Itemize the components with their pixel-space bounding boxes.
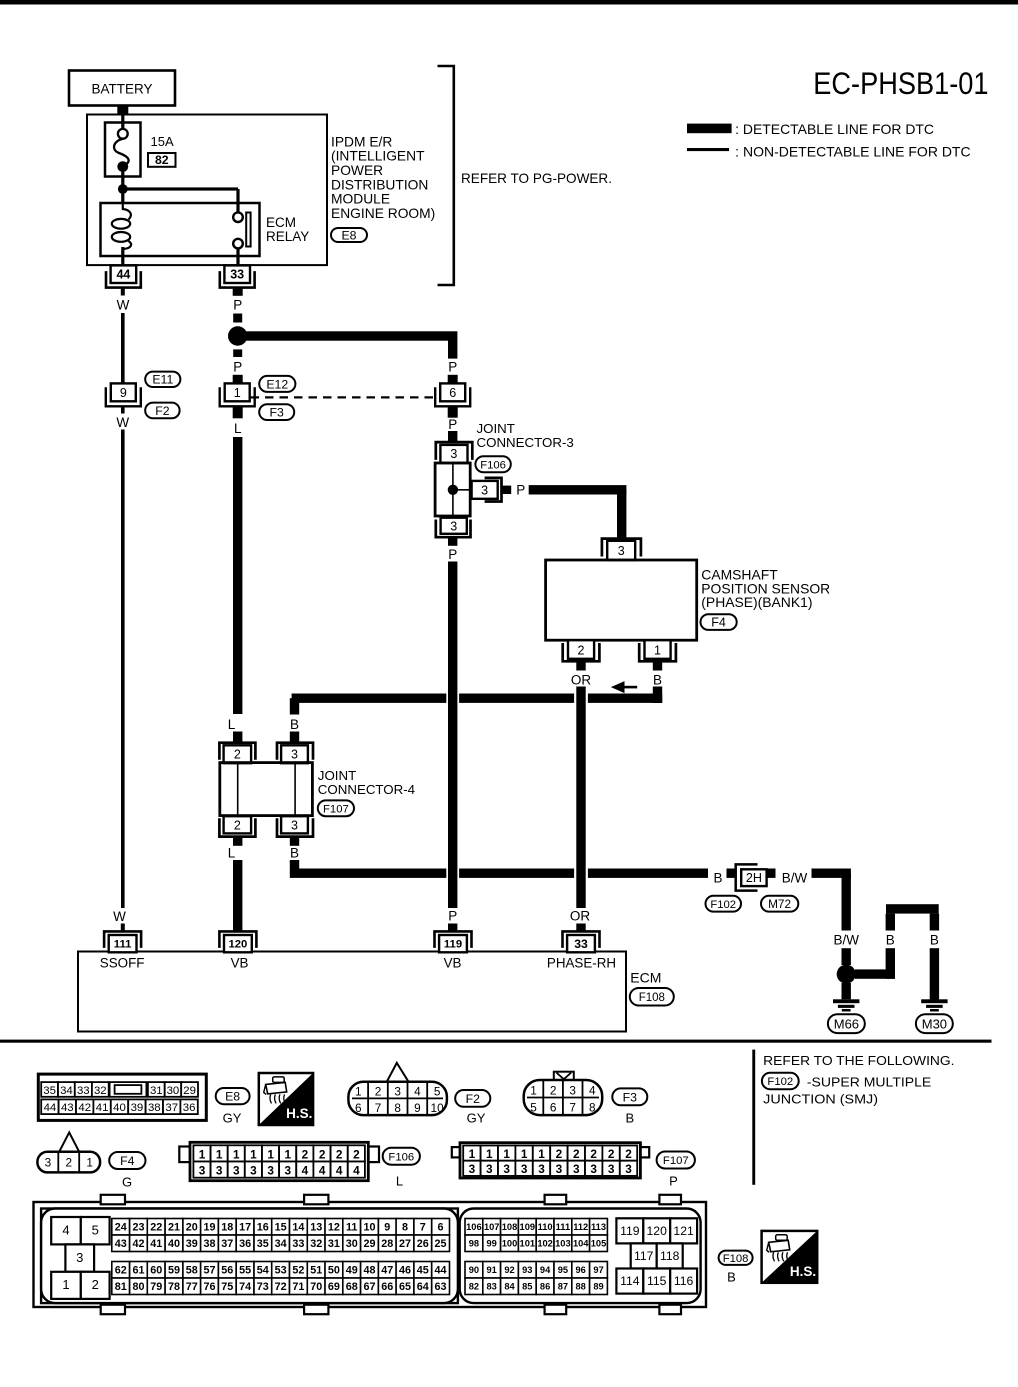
svg-text:19: 19 xyxy=(203,1222,215,1234)
svg-text:1: 1 xyxy=(62,1277,69,1292)
svg-text:F107: F107 xyxy=(663,1155,689,1167)
svg-text:2: 2 xyxy=(319,1147,326,1161)
svg-text:97: 97 xyxy=(593,1265,603,1275)
svg-text:59: 59 xyxy=(168,1265,180,1277)
svg-text:3: 3 xyxy=(608,1162,615,1176)
svg-text:111: 111 xyxy=(556,1222,571,1232)
svg-text:L: L xyxy=(228,846,236,861)
svg-text:F106: F106 xyxy=(388,1151,414,1163)
svg-text:6: 6 xyxy=(355,1101,362,1115)
svg-text:4: 4 xyxy=(353,1164,360,1178)
svg-text:BATTERY: BATTERY xyxy=(91,82,152,97)
svg-text:116: 116 xyxy=(674,1274,694,1288)
svg-text:12: 12 xyxy=(328,1222,340,1234)
svg-text:3: 3 xyxy=(521,1162,528,1176)
svg-text:58: 58 xyxy=(186,1265,198,1277)
svg-text:46: 46 xyxy=(399,1265,411,1277)
svg-text:H.S.: H.S. xyxy=(286,1106,312,1121)
svg-text:P: P xyxy=(448,417,457,432)
svg-text:44: 44 xyxy=(434,1265,446,1277)
svg-text:21: 21 xyxy=(168,1222,180,1234)
svg-text:DISTRIBUTION: DISTRIBUTION xyxy=(331,177,428,192)
svg-text:JUNCTION (SMJ): JUNCTION (SMJ) xyxy=(763,1092,878,1107)
svg-text:73: 73 xyxy=(257,1281,269,1293)
svg-text:38: 38 xyxy=(148,1102,161,1114)
svg-text:37: 37 xyxy=(165,1102,178,1114)
svg-text:54: 54 xyxy=(257,1265,269,1277)
svg-text:2: 2 xyxy=(234,748,241,762)
svg-text:3: 3 xyxy=(625,1162,632,1176)
svg-text:35: 35 xyxy=(257,1238,269,1250)
svg-text:91: 91 xyxy=(487,1265,497,1275)
svg-text:B/W: B/W xyxy=(782,870,808,885)
svg-text:42: 42 xyxy=(132,1238,144,1250)
svg-text:E8: E8 xyxy=(341,228,356,242)
svg-text:105: 105 xyxy=(591,1239,607,1249)
svg-text:53: 53 xyxy=(275,1265,287,1277)
svg-text:E12: E12 xyxy=(266,377,288,391)
svg-text:2: 2 xyxy=(92,1277,99,1292)
svg-text:14: 14 xyxy=(292,1222,304,1234)
svg-text:L: L xyxy=(234,421,242,436)
svg-text:B: B xyxy=(290,846,299,861)
svg-text:34: 34 xyxy=(275,1238,287,1250)
svg-text:M66: M66 xyxy=(834,1016,859,1031)
svg-text:3: 3 xyxy=(45,1155,52,1169)
svg-text:26: 26 xyxy=(417,1238,429,1250)
svg-text:72: 72 xyxy=(275,1281,287,1293)
svg-text:3: 3 xyxy=(486,1162,493,1176)
svg-text:51: 51 xyxy=(310,1265,322,1277)
svg-text:76: 76 xyxy=(203,1281,215,1293)
svg-text:F2: F2 xyxy=(466,1092,481,1106)
svg-text:81: 81 xyxy=(115,1281,127,1293)
svg-text:: DETECTABLE LINE FOR DTC: : DETECTABLE LINE FOR DTC xyxy=(735,121,934,137)
svg-text:1: 1 xyxy=(199,1147,206,1161)
svg-text:L: L xyxy=(396,1174,403,1189)
svg-text:CONNECTOR-4: CONNECTOR-4 xyxy=(318,782,415,797)
svg-text:63: 63 xyxy=(434,1281,446,1293)
svg-text:41: 41 xyxy=(150,1238,162,1250)
svg-text:100: 100 xyxy=(502,1239,518,1249)
svg-text:B: B xyxy=(653,673,662,688)
svg-text:3: 3 xyxy=(450,520,457,534)
svg-text:42: 42 xyxy=(78,1102,91,1114)
svg-text:1: 1 xyxy=(530,1083,537,1097)
svg-text:33: 33 xyxy=(77,1085,90,1097)
svg-text:3: 3 xyxy=(469,1162,476,1176)
svg-text:REFER TO THE FOLLOWING.: REFER TO THE FOLLOWING. xyxy=(763,1053,954,1068)
svg-text:1: 1 xyxy=(654,643,661,657)
svg-text:4: 4 xyxy=(62,1223,69,1238)
svg-text:-SUPER MULTIPLE: -SUPER MULTIPLE xyxy=(807,1075,932,1090)
svg-text:30: 30 xyxy=(167,1085,180,1097)
svg-text:10: 10 xyxy=(363,1222,375,1234)
svg-text:67: 67 xyxy=(363,1281,375,1293)
svg-text:2: 2 xyxy=(375,1084,382,1098)
svg-text:W: W xyxy=(113,909,126,924)
svg-text:39: 39 xyxy=(186,1238,198,1250)
svg-text:F3: F3 xyxy=(623,1090,638,1104)
svg-text:61: 61 xyxy=(132,1265,144,1277)
svg-text:25: 25 xyxy=(434,1238,446,1250)
svg-text:52: 52 xyxy=(292,1265,304,1277)
svg-text:2: 2 xyxy=(550,1083,557,1097)
svg-text:39: 39 xyxy=(131,1102,144,1114)
svg-text:4: 4 xyxy=(319,1164,326,1178)
svg-text:94: 94 xyxy=(540,1265,551,1275)
svg-text:F106: F106 xyxy=(480,459,506,471)
svg-text:M30: M30 xyxy=(922,1016,947,1031)
svg-text:71: 71 xyxy=(292,1281,304,1293)
svg-text:EC-PHSB1-01: EC-PHSB1-01 xyxy=(813,66,988,101)
svg-text:3: 3 xyxy=(76,1250,83,1265)
svg-text:82: 82 xyxy=(155,153,169,167)
svg-text:2: 2 xyxy=(625,1147,632,1161)
svg-text:H.S.: H.S. xyxy=(790,1264,816,1279)
svg-text:1: 1 xyxy=(216,1147,223,1161)
svg-text:F4: F4 xyxy=(711,616,726,630)
svg-text:F2: F2 xyxy=(155,404,170,418)
svg-text:98: 98 xyxy=(469,1239,479,1249)
svg-text:10: 10 xyxy=(431,1101,445,1115)
svg-text:119: 119 xyxy=(620,1224,640,1238)
svg-text:114: 114 xyxy=(620,1274,640,1288)
svg-text:5: 5 xyxy=(530,1100,537,1114)
svg-text:7: 7 xyxy=(375,1101,382,1115)
svg-text:F102: F102 xyxy=(767,1076,793,1088)
svg-text:32: 32 xyxy=(310,1238,322,1250)
svg-text:44: 44 xyxy=(44,1102,57,1114)
svg-text:50: 50 xyxy=(328,1265,340,1277)
svg-text:68: 68 xyxy=(346,1281,358,1293)
svg-text:F108: F108 xyxy=(723,1253,749,1265)
svg-text:117: 117 xyxy=(634,1249,654,1263)
svg-text:120: 120 xyxy=(647,1224,668,1238)
svg-text:P: P xyxy=(448,547,457,562)
svg-text:27: 27 xyxy=(399,1238,411,1250)
svg-text:96: 96 xyxy=(576,1265,586,1275)
svg-text:102: 102 xyxy=(537,1239,553,1249)
svg-text:3: 3 xyxy=(618,544,625,558)
svg-text:31: 31 xyxy=(328,1238,340,1250)
svg-text:7: 7 xyxy=(569,1100,576,1114)
svg-text:17: 17 xyxy=(239,1222,251,1234)
svg-text:77: 77 xyxy=(186,1281,198,1293)
svg-text:F108: F108 xyxy=(639,992,665,1004)
svg-text:P: P xyxy=(233,360,242,375)
svg-text:29: 29 xyxy=(183,1085,196,1097)
svg-text:93: 93 xyxy=(522,1265,532,1275)
svg-text:E8: E8 xyxy=(225,1090,240,1104)
svg-text:24: 24 xyxy=(115,1222,127,1234)
svg-text:88: 88 xyxy=(576,1282,586,1292)
svg-text:3: 3 xyxy=(590,1162,597,1176)
svg-text:5: 5 xyxy=(92,1223,99,1238)
svg-text:16: 16 xyxy=(257,1222,269,1234)
svg-text:40: 40 xyxy=(168,1238,180,1250)
svg-text:104: 104 xyxy=(573,1239,589,1249)
svg-text:JOINT: JOINT xyxy=(318,768,356,783)
svg-text:8: 8 xyxy=(589,1100,596,1114)
svg-text:F3: F3 xyxy=(270,406,285,420)
svg-text:2: 2 xyxy=(608,1147,615,1161)
svg-text:3: 3 xyxy=(538,1162,545,1176)
svg-text:8: 8 xyxy=(402,1222,408,1234)
svg-text:22: 22 xyxy=(150,1222,162,1234)
svg-text:92: 92 xyxy=(504,1265,514,1275)
svg-text:111: 111 xyxy=(114,939,132,951)
svg-text:1: 1 xyxy=(521,1147,528,1161)
svg-text:11: 11 xyxy=(346,1222,357,1234)
svg-text:5: 5 xyxy=(434,1084,441,1098)
svg-text:121: 121 xyxy=(673,1224,694,1238)
svg-text:13: 13 xyxy=(310,1222,322,1234)
svg-text:87: 87 xyxy=(558,1282,568,1292)
svg-text:33: 33 xyxy=(230,268,244,282)
svg-text:41: 41 xyxy=(96,1102,109,1114)
svg-text:3: 3 xyxy=(503,1162,510,1176)
svg-text:1: 1 xyxy=(285,1147,292,1161)
svg-text:56: 56 xyxy=(221,1265,233,1277)
svg-text:2: 2 xyxy=(234,818,241,832)
svg-text:109: 109 xyxy=(520,1222,536,1232)
svg-text:3: 3 xyxy=(216,1164,223,1178)
svg-text:101: 101 xyxy=(520,1239,536,1249)
svg-text:33: 33 xyxy=(574,937,588,951)
svg-text:29: 29 xyxy=(363,1238,375,1250)
svg-text:118: 118 xyxy=(660,1249,680,1263)
svg-text:23: 23 xyxy=(132,1222,144,1234)
svg-text:95: 95 xyxy=(558,1265,568,1275)
svg-text:1: 1 xyxy=(486,1147,493,1161)
svg-text:VB: VB xyxy=(444,955,462,970)
svg-text:49: 49 xyxy=(346,1265,358,1277)
svg-text:1: 1 xyxy=(355,1084,362,1098)
svg-text:SSOFF: SSOFF xyxy=(100,955,145,970)
svg-text:45: 45 xyxy=(417,1265,429,1277)
svg-text:84: 84 xyxy=(504,1282,515,1292)
svg-text:M72: M72 xyxy=(768,897,791,911)
svg-text:B: B xyxy=(930,933,939,948)
svg-text:55: 55 xyxy=(239,1265,251,1277)
svg-text:47: 47 xyxy=(381,1265,393,1277)
svg-text:2: 2 xyxy=(573,1147,580,1161)
svg-text:2: 2 xyxy=(578,643,585,657)
svg-text:3: 3 xyxy=(394,1084,401,1098)
svg-text:75: 75 xyxy=(221,1281,233,1293)
svg-text:3: 3 xyxy=(199,1164,206,1178)
svg-text:38: 38 xyxy=(203,1238,215,1250)
svg-text:P: P xyxy=(233,298,242,313)
svg-text:36: 36 xyxy=(239,1238,251,1250)
svg-text:F4: F4 xyxy=(120,1154,135,1168)
svg-text:1: 1 xyxy=(469,1147,476,1161)
svg-text:74: 74 xyxy=(239,1281,251,1293)
svg-text:18: 18 xyxy=(221,1222,233,1234)
svg-text:28: 28 xyxy=(381,1238,393,1250)
svg-text:1: 1 xyxy=(234,386,241,400)
svg-text:33: 33 xyxy=(292,1238,304,1250)
svg-text:MODULE: MODULE xyxy=(331,192,390,207)
svg-text:44: 44 xyxy=(116,268,130,282)
svg-text:9: 9 xyxy=(120,386,127,400)
svg-text:1: 1 xyxy=(233,1147,240,1161)
svg-text:3: 3 xyxy=(233,1164,240,1178)
svg-text:POWER: POWER xyxy=(331,163,383,178)
svg-text:6: 6 xyxy=(437,1222,443,1234)
svg-text:F102: F102 xyxy=(710,899,736,911)
svg-text:L: L xyxy=(228,717,236,732)
svg-text:GY: GY xyxy=(467,1111,486,1126)
svg-text:B: B xyxy=(713,870,722,885)
svg-text:IPDM E/R: IPDM E/R xyxy=(331,134,392,149)
svg-text:B/W: B/W xyxy=(833,933,859,948)
svg-text:JOINT: JOINT xyxy=(477,421,515,436)
svg-text:86: 86 xyxy=(540,1282,550,1292)
svg-text:9: 9 xyxy=(414,1101,421,1115)
svg-text:REFER TO PG-POWER.: REFER TO PG-POWER. xyxy=(461,171,612,186)
svg-text:40: 40 xyxy=(113,1102,126,1114)
svg-text:85: 85 xyxy=(522,1282,532,1292)
svg-text:64: 64 xyxy=(417,1281,429,1293)
svg-text:P: P xyxy=(669,1174,678,1189)
svg-text:1: 1 xyxy=(503,1147,510,1161)
svg-text:110: 110 xyxy=(538,1222,553,1232)
svg-text:43: 43 xyxy=(115,1238,127,1250)
svg-text:90: 90 xyxy=(469,1265,479,1275)
svg-text:B: B xyxy=(625,1111,634,1126)
svg-text:31: 31 xyxy=(150,1085,163,1097)
svg-text:2: 2 xyxy=(66,1155,73,1169)
svg-text:115: 115 xyxy=(647,1274,667,1288)
svg-text:F107: F107 xyxy=(323,803,349,815)
svg-text:G: G xyxy=(122,1175,132,1190)
svg-text:1: 1 xyxy=(267,1147,274,1161)
svg-text:B: B xyxy=(886,933,895,948)
svg-text:(INTELLIGENT: (INTELLIGENT xyxy=(331,149,425,164)
svg-text:70: 70 xyxy=(310,1281,322,1293)
svg-text:GY: GY xyxy=(223,1111,242,1126)
svg-text:3: 3 xyxy=(291,748,298,762)
svg-text:4: 4 xyxy=(336,1164,343,1178)
svg-text:P: P xyxy=(448,909,457,924)
svg-text:82: 82 xyxy=(469,1282,479,1292)
svg-text:2: 2 xyxy=(336,1147,343,1161)
svg-text:(PHASE)(BANK1): (PHASE)(BANK1) xyxy=(701,594,812,610)
svg-text:57: 57 xyxy=(203,1265,215,1277)
svg-text:99: 99 xyxy=(487,1239,497,1249)
svg-text:ECM: ECM xyxy=(630,969,661,985)
svg-text:32: 32 xyxy=(94,1085,107,1097)
svg-text:3: 3 xyxy=(450,447,457,461)
svg-text:30: 30 xyxy=(346,1238,358,1250)
svg-text:2: 2 xyxy=(302,1147,309,1161)
svg-text:20: 20 xyxy=(186,1222,198,1234)
svg-text:4: 4 xyxy=(302,1164,309,1178)
svg-text:66: 66 xyxy=(381,1281,393,1293)
svg-text:OR: OR xyxy=(570,909,591,924)
svg-text:6: 6 xyxy=(449,386,456,400)
svg-text:108: 108 xyxy=(502,1222,518,1232)
svg-text:79: 79 xyxy=(150,1281,162,1293)
svg-text:B: B xyxy=(290,717,299,732)
svg-text:113: 113 xyxy=(591,1222,606,1232)
svg-text:CONNECTOR-3: CONNECTOR-3 xyxy=(477,435,574,450)
svg-text:15A: 15A xyxy=(151,134,174,149)
svg-text:6: 6 xyxy=(550,1100,557,1114)
svg-text:2: 2 xyxy=(590,1147,597,1161)
svg-text:B: B xyxy=(727,1269,736,1284)
svg-text:106: 106 xyxy=(466,1222,482,1232)
svg-text:119: 119 xyxy=(444,939,462,951)
svg-text:3: 3 xyxy=(573,1162,580,1176)
svg-text:1: 1 xyxy=(86,1155,93,1169)
svg-text:103: 103 xyxy=(555,1239,571,1249)
svg-text:RELAY: RELAY xyxy=(266,229,309,244)
svg-text:9: 9 xyxy=(384,1222,390,1234)
svg-text:107: 107 xyxy=(484,1222,500,1232)
svg-text:VB: VB xyxy=(231,955,249,970)
svg-text:3: 3 xyxy=(481,483,488,497)
svg-text:3: 3 xyxy=(267,1164,274,1178)
svg-text:2: 2 xyxy=(353,1147,360,1161)
svg-text:1: 1 xyxy=(538,1147,545,1161)
svg-text:ENGINE ROOM): ENGINE ROOM) xyxy=(331,206,435,221)
svg-text:15: 15 xyxy=(275,1222,287,1234)
svg-text:3: 3 xyxy=(285,1164,292,1178)
svg-text:36: 36 xyxy=(183,1102,196,1114)
svg-text:2H: 2H xyxy=(746,871,762,885)
svg-text:1: 1 xyxy=(250,1147,257,1161)
svg-text:PHASE-RH: PHASE-RH xyxy=(547,955,616,970)
svg-text:W: W xyxy=(117,298,130,313)
svg-text:3: 3 xyxy=(569,1083,576,1097)
svg-text:3: 3 xyxy=(250,1164,257,1178)
svg-text:ECM: ECM xyxy=(266,215,296,230)
svg-text:43: 43 xyxy=(61,1102,74,1114)
svg-text:35: 35 xyxy=(43,1085,56,1097)
svg-text:8: 8 xyxy=(394,1101,401,1115)
svg-text:7: 7 xyxy=(420,1222,426,1234)
svg-text:2: 2 xyxy=(556,1147,563,1161)
svg-text:3: 3 xyxy=(291,818,298,832)
svg-text:P: P xyxy=(448,360,457,375)
svg-text:120: 120 xyxy=(228,939,247,951)
svg-text:34: 34 xyxy=(60,1085,73,1097)
svg-text:E11: E11 xyxy=(152,373,173,387)
svg-text:P: P xyxy=(516,483,525,498)
svg-text:4: 4 xyxy=(589,1083,596,1097)
svg-text:65: 65 xyxy=(399,1281,411,1293)
svg-text:4: 4 xyxy=(414,1084,421,1098)
svg-text:78: 78 xyxy=(168,1281,180,1293)
svg-text:80: 80 xyxy=(132,1281,144,1293)
svg-text:62: 62 xyxy=(115,1265,127,1277)
svg-text:69: 69 xyxy=(328,1281,340,1293)
svg-text:48: 48 xyxy=(363,1265,375,1277)
svg-text:: NON-DETECTABLE LINE FOR DTC: : NON-DETECTABLE LINE FOR DTC xyxy=(735,144,970,160)
svg-text:37: 37 xyxy=(221,1238,233,1250)
svg-text:112: 112 xyxy=(573,1222,588,1232)
svg-text:89: 89 xyxy=(593,1282,603,1292)
svg-text:W: W xyxy=(116,415,129,430)
svg-text:3: 3 xyxy=(556,1162,563,1176)
svg-text:83: 83 xyxy=(487,1282,497,1292)
svg-text:OR: OR xyxy=(571,673,592,688)
svg-text:60: 60 xyxy=(150,1265,162,1277)
